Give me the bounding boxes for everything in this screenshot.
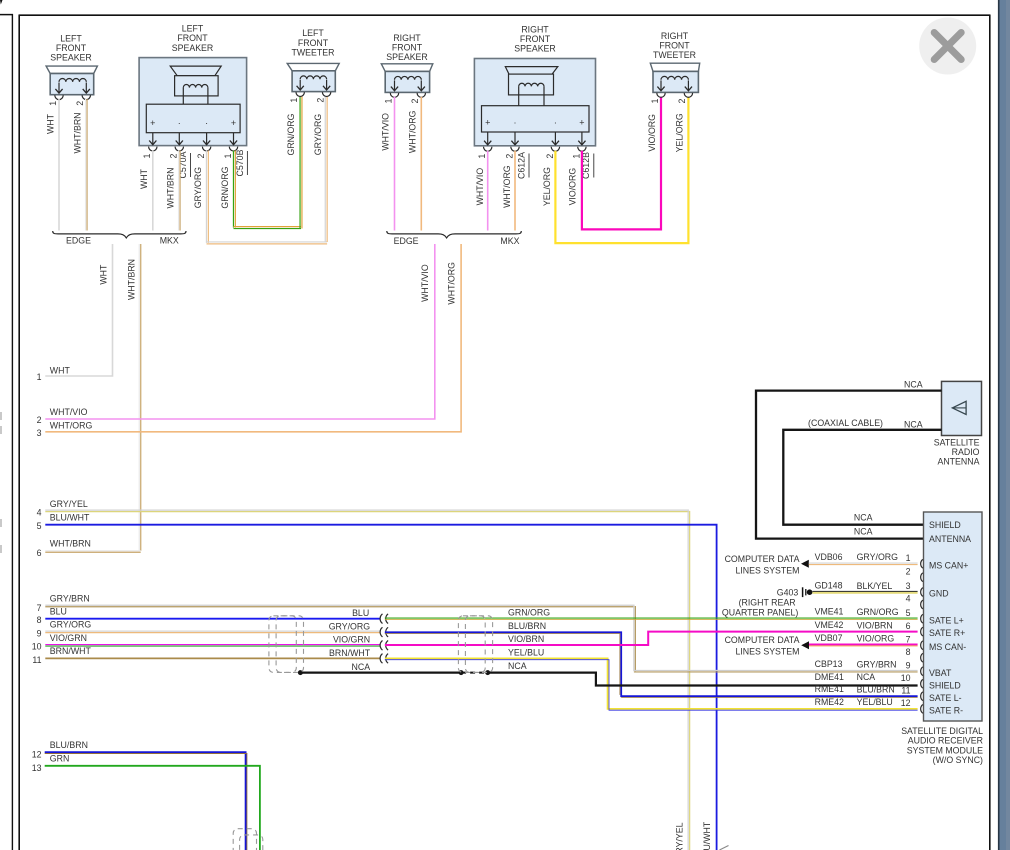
wire BLU/BRN row 12 xyxy=(45,752,247,850)
wire GRN/ORG row 8 to module pin 5 SATE L+ xyxy=(385,618,918,619)
right front tweeter symbol xyxy=(650,63,699,97)
svg-text:LINES SYSTEM: LINES SYSTEM xyxy=(735,566,799,576)
svg-text:BLU/WHT: BLU/WHT xyxy=(702,821,712,850)
label SATELLITE DIGITAL AUDIO RECEIVER SYSTEM MODULE (W/O SYNC) xyxy=(901,726,983,765)
wire VIO/ORG - MKX right speaker pin 4 to right tweeter pin 1 xyxy=(582,97,661,230)
wire WHT/BRN - left front speaker pin 2 xyxy=(86,99,88,231)
svg-text:WHT/VIO: WHT/VIO xyxy=(475,168,485,206)
svg-text:·: · xyxy=(514,118,517,128)
svg-text:LEFT: LEFT xyxy=(302,28,324,38)
satellite radio antenna box xyxy=(942,381,982,435)
svg-text:GRY/ORG: GRY/ORG xyxy=(857,552,899,562)
svg-text:SATELLITE DIGITAL: SATELLITE DIGITAL xyxy=(901,726,983,736)
module pin numbers xyxy=(901,553,911,708)
svg-text:FRONT: FRONT xyxy=(520,34,551,44)
wire VIO/BRN row 10 to module pin 6 SATE R+ xyxy=(385,632,918,645)
svg-text:GRN/ORG: GRN/ORG xyxy=(286,113,296,155)
svg-text:TWEETER: TWEETER xyxy=(653,50,696,60)
inline connector row 9 xyxy=(380,627,388,637)
svg-text:MS CAN-: MS CAN- xyxy=(929,642,966,652)
svg-text:BRN/WHT: BRN/WHT xyxy=(50,646,92,656)
svg-text:QUARTER PANEL): QUARTER PANEL) xyxy=(722,607,798,617)
svg-text:·: · xyxy=(205,118,208,128)
svg-text:SHIELD: SHIELD xyxy=(929,680,961,690)
svg-text:RME42: RME42 xyxy=(815,697,844,707)
wire WHT/VIO - right brace output to row 2 xyxy=(45,244,435,419)
svg-text:GRY/BRN: GRY/BRN xyxy=(50,594,90,604)
wire WHT/ORG - right brace output to row 3 xyxy=(45,244,461,432)
wire WHT/VIO - MKX right speaker pin 1 xyxy=(487,151,489,231)
wire GRY/ORG pin 1 MS CAN+ xyxy=(809,563,918,565)
inline connector row 11 xyxy=(380,654,388,664)
svg-text:2: 2 xyxy=(677,98,687,103)
svg-text:VIO/ORG: VIO/ORG xyxy=(857,633,895,643)
svg-text:1: 1 xyxy=(571,154,581,159)
wire VIO/ORG pin 7 MS CAN- xyxy=(809,644,918,646)
svg-text:MKX: MKX xyxy=(160,236,179,246)
svg-text:BLU/BRN: BLU/BRN xyxy=(857,685,895,695)
svg-text:GRN/ORG: GRN/ORG xyxy=(508,608,550,618)
svg-text:WHT: WHT xyxy=(50,365,71,375)
svg-text:WHT/VIO: WHT/VIO xyxy=(50,407,88,417)
svg-text:WHT/BRN: WHT/BRN xyxy=(166,167,176,208)
wire GRY/ORG row 9 xyxy=(45,631,380,633)
svg-text:GRY/ORG: GRY/ORG xyxy=(193,167,203,209)
svg-text:FRONT: FRONT xyxy=(392,43,423,53)
svg-text:(W/O SYNC): (W/O SYNC) xyxy=(933,755,983,765)
svg-text:COMPUTER DATA: COMPUTER DATA xyxy=(725,554,800,564)
svg-text:C570B: C570B xyxy=(235,149,245,176)
wire BLK/YEL pin 3 GND xyxy=(812,591,917,593)
svg-text:RME41: RME41 xyxy=(815,684,844,694)
arrow computer data lines (pin 1) xyxy=(801,560,809,568)
svg-text:LINES SYSTEM: LINES SYSTEM xyxy=(735,647,799,657)
svg-text:GD148: GD148 xyxy=(815,580,843,590)
connector C570A xyxy=(178,151,191,178)
svg-text:LEFT: LEFT xyxy=(60,33,82,43)
svg-text:COMPUTER DATA: COMPUTER DATA xyxy=(725,635,800,645)
svg-text:BLU: BLU xyxy=(50,607,67,617)
svg-text:NCA: NCA xyxy=(904,419,923,429)
wire BLU row 8 xyxy=(45,618,380,620)
svg-text:VDB06: VDB06 xyxy=(815,552,843,562)
brace EDGE/MKX right xyxy=(387,231,522,238)
svg-text:NCA: NCA xyxy=(508,661,527,671)
svg-text:12: 12 xyxy=(901,698,911,708)
svg-text:WHT/VIO: WHT/VIO xyxy=(381,113,391,151)
svg-text:FRONT: FRONT xyxy=(56,43,87,53)
satellite digital audio receiver system module box xyxy=(924,512,983,721)
inline connector row 8 xyxy=(380,614,388,624)
wire WHT/BRN - brace output to row 6 xyxy=(45,244,140,552)
svg-text:WHT: WHT xyxy=(45,113,55,134)
brace EDGE/MKX left xyxy=(53,231,186,238)
right front speaker (MKX) box xyxy=(474,59,595,146)
svg-text:BRN/WHT: BRN/WHT xyxy=(329,648,371,658)
wire BLU/BRN row 9 to module pin 11 SATE L- xyxy=(385,632,918,697)
svg-text:WHT/BRN: WHT/BRN xyxy=(50,539,91,549)
wire NCA coaxial to module SHIELD pin xyxy=(783,430,941,525)
svg-text:8: 8 xyxy=(37,615,42,625)
svg-text:1: 1 xyxy=(650,98,660,103)
svg-text:NCA: NCA xyxy=(904,379,923,389)
svg-text:GRN: GRN xyxy=(50,754,70,764)
connector C612B xyxy=(581,152,594,179)
svg-text:WHT/ORG: WHT/ORG xyxy=(502,165,512,208)
svg-text:VIO/ORG: VIO/ORG xyxy=(647,114,657,152)
bottom connector dashed box xyxy=(233,829,263,850)
svg-text:DME41: DME41 xyxy=(815,672,844,682)
svg-text:·: · xyxy=(554,118,557,128)
svg-text:ANTENNA: ANTENNA xyxy=(937,456,979,466)
wire BLU/WHT row 5 xyxy=(45,525,716,850)
svg-text:2: 2 xyxy=(75,101,85,106)
svg-text:NCA: NCA xyxy=(352,662,371,672)
antenna symbol xyxy=(952,401,966,414)
svg-text:(COAXIAL CABLE): (COAXIAL CABLE) xyxy=(808,418,883,428)
wire NCA antenna to module ANTENNA pin xyxy=(756,391,942,539)
label SATELLITE RADIO ANTENNA xyxy=(934,437,980,466)
svg-text:2: 2 xyxy=(504,154,514,159)
left front speaker (MKX) label xyxy=(172,24,214,53)
svg-text:GRN/ORG: GRN/ORG xyxy=(220,166,230,208)
right front speaker (EDGE) label xyxy=(386,33,428,62)
svg-text:2: 2 xyxy=(196,153,206,158)
svg-text:SATELLITE: SATELLITE xyxy=(934,437,980,447)
svg-text:2: 2 xyxy=(315,98,325,103)
svg-text:1: 1 xyxy=(37,372,42,382)
svg-text:EDGE: EDGE xyxy=(394,236,419,246)
svg-text:NCA: NCA xyxy=(857,672,876,682)
svg-text:NCA: NCA xyxy=(854,527,873,537)
svg-text:WHT/ORG: WHT/ORG xyxy=(407,110,417,153)
svg-text:10: 10 xyxy=(32,642,42,652)
label COMPUTER DATA LINES SYSTEM (pin 7) xyxy=(725,635,800,657)
svg-text:2: 2 xyxy=(545,154,555,159)
svg-text:VIO/BRN: VIO/BRN xyxy=(508,634,544,644)
connector C570B xyxy=(235,149,248,176)
svg-text:+: + xyxy=(579,118,584,128)
right front speaker (MKX) speaker symbol xyxy=(482,67,590,152)
svg-text:BLU/BRN: BLU/BRN xyxy=(508,621,546,631)
svg-text:SATE R-: SATE R- xyxy=(929,706,963,716)
svg-text:VME42: VME42 xyxy=(815,620,844,630)
svg-text:1: 1 xyxy=(223,153,233,158)
svg-text:4: 4 xyxy=(37,507,42,517)
inline connector row 10 xyxy=(380,641,388,651)
svg-text:VIO/ORG: VIO/ORG xyxy=(568,168,578,206)
svg-text:WHT: WHT xyxy=(99,264,109,285)
svg-text:SATE R+: SATE R+ xyxy=(929,628,965,638)
svg-text:·: · xyxy=(178,118,181,128)
svg-text:9: 9 xyxy=(37,628,42,638)
svg-text:WHT: WHT xyxy=(139,168,149,189)
svg-text:C612A: C612A xyxy=(516,152,526,179)
svg-text:7: 7 xyxy=(37,603,42,613)
svg-text:FRONT: FRONT xyxy=(659,41,690,51)
svg-text:6: 6 xyxy=(37,548,42,558)
close button xyxy=(919,18,976,75)
left front speaker (EDGE) label xyxy=(50,33,92,62)
svg-text:SPEAKER: SPEAKER xyxy=(172,43,214,53)
svg-text:2: 2 xyxy=(37,415,42,425)
svg-text:BLU/BRN: BLU/BRN xyxy=(50,740,88,750)
svg-text:12: 12 xyxy=(32,750,42,760)
svg-text:+: + xyxy=(231,118,236,128)
wire YEL/ORG - MKX right speaker pin 3 to right tweeter pin 2 xyxy=(555,97,688,243)
svg-text:9: 9 xyxy=(906,660,911,670)
svg-text:+: + xyxy=(150,118,155,128)
svg-text:2: 2 xyxy=(410,98,420,103)
svg-text:(RIGHT REAR: (RIGHT REAR xyxy=(739,598,796,608)
svg-text:BLU/WHT: BLU/WHT xyxy=(50,513,90,523)
wire WHT/BRN - MKX speaker pin 2 xyxy=(179,151,181,231)
svg-text:GRY/ORG: GRY/ORG xyxy=(50,620,92,630)
svg-text:WHT/ORG: WHT/ORG xyxy=(447,262,457,305)
wire WHT/VIO - right front speaker pin 1 xyxy=(394,97,396,231)
svg-text:VDB07: VDB07 xyxy=(815,633,843,643)
wire GRN row 13 xyxy=(45,766,260,850)
wire WHT - left front speaker pin 1 xyxy=(58,99,60,231)
svg-text:AUDIO RECEIVER: AUDIO RECEIVER xyxy=(908,736,983,746)
svg-text:GRY/YEL: GRY/YEL xyxy=(50,499,88,509)
svg-text:G403: G403 xyxy=(777,587,799,597)
svg-text:SPEAKER: SPEAKER xyxy=(386,52,428,62)
wire WHT/ORG - right front speaker pin 2 xyxy=(420,97,422,231)
svg-text:WHT/VIO: WHT/VIO xyxy=(420,264,430,302)
svg-text:WHT/ORG: WHT/ORG xyxy=(50,420,93,430)
svg-text:1: 1 xyxy=(289,98,299,103)
wire GRY/ORG - MKX speaker pin 3 to left tweeter pin 2 xyxy=(206,97,327,244)
svg-text:GRY/YEL: GRY/YEL xyxy=(674,822,684,850)
shield dashed box right xyxy=(458,616,492,673)
svg-text:BLK/YEL: BLK/YEL xyxy=(857,581,893,591)
wire YEL/BLU row 11 to module pin 12 SATE R- xyxy=(385,658,918,710)
svg-text:BLU: BLU xyxy=(352,608,369,618)
module internal labels xyxy=(929,520,971,716)
corner mark top-left xyxy=(0,0,3,5)
left front tweeter label xyxy=(291,28,334,57)
svg-text:5: 5 xyxy=(906,608,911,618)
module pin parens xyxy=(921,559,923,713)
svg-text:FRONT: FRONT xyxy=(177,33,208,43)
svg-text:GRY/ORG: GRY/ORG xyxy=(329,621,371,631)
svg-text:3: 3 xyxy=(906,581,911,591)
arrow computer data lines (pin 7) xyxy=(801,641,809,649)
svg-text:MKX: MKX xyxy=(500,236,519,246)
svg-text:+: + xyxy=(485,118,490,128)
svg-text:5: 5 xyxy=(37,521,42,531)
previous page right border xyxy=(0,14,13,850)
left front tweeter symbol xyxy=(287,63,339,96)
left front speaker (EDGE) symbol xyxy=(46,66,97,100)
svg-text:13: 13 xyxy=(32,763,42,773)
svg-text:YEL/BLU: YEL/BLU xyxy=(857,697,893,707)
svg-text:SATE L-: SATE L- xyxy=(929,693,962,703)
svg-text:VIO/GRN: VIO/GRN xyxy=(333,635,370,645)
bottom connector mark xyxy=(720,846,729,850)
svg-text:CBP13: CBP13 xyxy=(815,659,843,669)
wire WHT/ORG - MKX right speaker pin 2 xyxy=(514,151,516,231)
svg-text:EDGE: EDGE xyxy=(66,236,91,246)
svg-text:VIO/GRN: VIO/GRN xyxy=(50,633,87,643)
svg-text:10: 10 xyxy=(901,673,911,683)
svg-text:SHIELD: SHIELD xyxy=(929,520,961,530)
svg-text:TWEETER: TWEETER xyxy=(291,47,334,57)
svg-text:RIGHT: RIGHT xyxy=(661,31,689,41)
ground G403 xyxy=(803,587,813,597)
wire BRN/WHT row 11 xyxy=(45,657,380,659)
wire WHT - MKX speaker pin 1 xyxy=(152,151,154,231)
svg-text:2: 2 xyxy=(906,566,911,576)
wire GRY/BRN row 7 to module pin 9 VBAT xyxy=(45,605,917,672)
left front speaker (MKX) box xyxy=(139,58,247,146)
svg-text:4: 4 xyxy=(906,594,911,604)
svg-text:7: 7 xyxy=(906,634,911,644)
svg-text:MS CAN+: MS CAN+ xyxy=(929,560,968,570)
wire VIO/GRN row 10 xyxy=(45,645,380,647)
edge ghost marks xyxy=(0,412,2,553)
svg-text:YEL/ORG: YEL/ORG xyxy=(675,113,685,152)
right window edge / scrollbar strip xyxy=(998,0,1010,850)
svg-text:11: 11 xyxy=(901,685,910,695)
svg-text:GRY/ORG: GRY/ORG xyxy=(313,114,323,156)
wire GRY/YEL row 4 xyxy=(45,510,689,850)
svg-text:SATE L+: SATE L+ xyxy=(929,615,964,625)
right front speaker (MKX) label xyxy=(514,25,556,54)
left front speaker (MKX) speaker symbol xyxy=(146,66,240,151)
right front speaker (EDGE) symbol xyxy=(381,64,433,98)
wire NCA shield drain to module pin 10 SHIELD xyxy=(298,670,918,685)
svg-text:SYSTEM MODULE: SYSTEM MODULE xyxy=(907,745,983,755)
svg-text:GRY/BRN: GRY/BRN xyxy=(857,660,897,670)
label COMPUTER DATA LINES SYSTEM (pin 1) xyxy=(725,554,800,576)
svg-text:FRONT: FRONT xyxy=(298,38,329,48)
svg-text:C570A: C570A xyxy=(178,151,188,178)
svg-text:6: 6 xyxy=(906,621,911,631)
wire GRN/ORG - MKX speaker pin 4 to left tweeter pin 1 xyxy=(233,97,302,229)
shield dashed box left xyxy=(269,616,304,673)
svg-text:RIGHT: RIGHT xyxy=(393,33,421,43)
svg-text:11: 11 xyxy=(32,655,41,665)
svg-text:1: 1 xyxy=(383,98,393,103)
svg-text:1: 1 xyxy=(142,153,152,158)
svg-text:WHT/BRN: WHT/BRN xyxy=(126,259,136,300)
svg-text:VIO/BRN: VIO/BRN xyxy=(857,620,893,630)
svg-text:VME41: VME41 xyxy=(815,607,844,617)
right front tweeter label xyxy=(653,31,696,60)
svg-text:1: 1 xyxy=(48,101,58,106)
svg-text:VBAT: VBAT xyxy=(929,668,952,678)
svg-text:GND: GND xyxy=(929,589,949,599)
svg-text:1: 1 xyxy=(477,154,487,159)
svg-text:LEFT: LEFT xyxy=(182,24,204,34)
svg-text:WHT/BRN: WHT/BRN xyxy=(72,112,82,153)
svg-text:NCA: NCA xyxy=(854,513,873,523)
label (RIGHT REAR QUARTER PANEL) xyxy=(722,598,798,618)
svg-text:GRN/ORG: GRN/ORG xyxy=(857,607,899,617)
svg-text:1: 1 xyxy=(906,553,911,563)
svg-text:3: 3 xyxy=(37,428,42,438)
connector C612A xyxy=(516,152,529,179)
svg-text:YEL/ORG: YEL/ORG xyxy=(542,167,552,206)
wire WHT - brace output to row 1 xyxy=(45,244,112,376)
svg-text:ANTENNA: ANTENNA xyxy=(929,534,971,544)
svg-text:SPEAKER: SPEAKER xyxy=(514,44,556,54)
svg-text:RIGHT: RIGHT xyxy=(521,25,549,35)
svg-text:SPEAKER: SPEAKER xyxy=(50,53,92,63)
svg-text:YEL/BLU: YEL/BLU xyxy=(508,647,544,657)
svg-text:8: 8 xyxy=(906,647,911,657)
